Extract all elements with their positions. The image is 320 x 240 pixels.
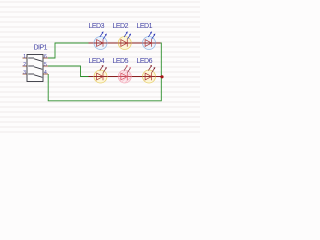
svg-text:2: 2	[23, 62, 26, 68]
svg-text:LED5: LED5	[113, 58, 129, 65]
svg-text:LED6: LED6	[137, 58, 153, 65]
svg-text:1: 1	[23, 54, 26, 60]
svg-text:LED4: LED4	[89, 58, 105, 65]
svg-text:LED2: LED2	[113, 23, 129, 30]
svg-text:5: 5	[44, 62, 47, 68]
svg-text:LED1: LED1	[137, 23, 153, 30]
svg-text:LED3: LED3	[89, 23, 105, 30]
svg-text:6: 6	[44, 54, 47, 60]
svg-text:4: 4	[44, 70, 47, 76]
svg-text:3: 3	[23, 70, 26, 76]
svg-text:DIP1: DIP1	[34, 44, 48, 51]
